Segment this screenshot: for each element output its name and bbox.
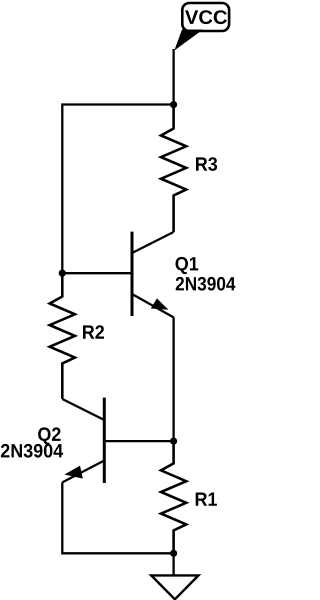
- junction node ground / R1 bottom: [170, 550, 177, 557]
- wire Q1 base: [62, 272, 132, 274]
- label Q2: [38, 427, 61, 444]
- transistor Q2: [62, 398, 104, 483]
- power flag VCC: [174, 3, 229, 51]
- label R3: [196, 157, 217, 171]
- wire Q2 emitter to ground rail: [62, 482, 173, 553]
- wire Q1 emitter to R1 node: [172, 317, 174, 441]
- resistor R3: [161, 105, 186, 232]
- junction node Q1 base / R2 top: [59, 270, 66, 277]
- label Q1: [176, 257, 199, 274]
- label Q2 value 2N3904: [1, 444, 63, 458]
- junction node Q1 emitter / Q2 base / R1: [170, 438, 177, 445]
- ground: [151, 553, 198, 599]
- resistor R2: [50, 273, 75, 399]
- label R1: [196, 493, 217, 506]
- junction node top (VCC rail / R3): [170, 101, 177, 108]
- wire top rail and left rail to Q1 base node: [62, 105, 173, 274]
- wire Q2 base: [104, 440, 173, 442]
- label Q1 value 2N3904: [176, 277, 236, 291]
- transistor Q1: [132, 232, 174, 318]
- label R2: [83, 325, 104, 339]
- resistor R1: [161, 441, 186, 553]
- wire VCC flag to top node: [172, 49, 174, 105]
